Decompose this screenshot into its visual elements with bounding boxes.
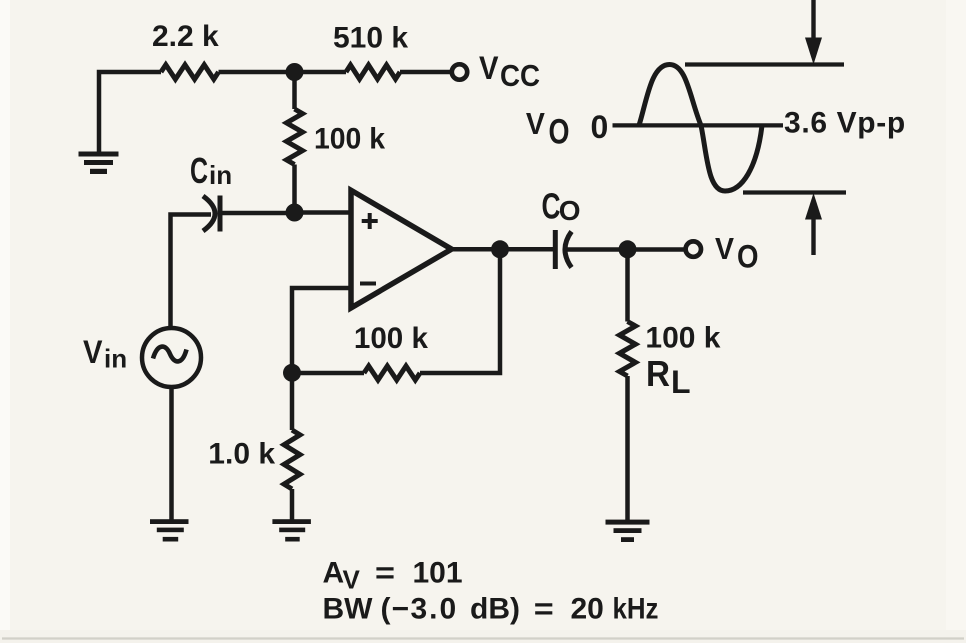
- svg-text:20: 20: [571, 593, 604, 626]
- svg-text:100 k: 100 k: [354, 322, 428, 355]
- svg-text:O: O: [737, 238, 759, 274]
- svg-text:510 k: 510 k: [333, 22, 408, 55]
- svg-text:C: C: [190, 150, 208, 191]
- svg-text:3.0: 3.0: [411, 593, 459, 626]
- svg-text:O: O: [549, 113, 570, 152]
- svg-text:V: V: [343, 565, 361, 595]
- svg-text:V: V: [715, 231, 734, 266]
- svg-text:BW: BW: [323, 593, 374, 626]
- svg-text:CC: CC: [500, 58, 540, 93]
- svg-text:V: V: [83, 334, 103, 370]
- svg-text:in: in: [209, 160, 232, 190]
- svg-text:(: (: [381, 593, 391, 626]
- svg-text:V: V: [479, 50, 499, 86]
- svg-text:3.6 Vp-p: 3.6 Vp-p: [784, 107, 906, 140]
- svg-text:−: −: [392, 593, 410, 626]
- svg-text:100 k: 100 k: [314, 123, 385, 156]
- svg-text:=: =: [534, 593, 554, 626]
- svg-text:V: V: [526, 106, 545, 141]
- svg-text:100 k: 100 k: [645, 321, 720, 354]
- svg-text:kHz: kHz: [613, 593, 659, 626]
- svg-text:R: R: [646, 353, 670, 394]
- svg-text:A: A: [323, 556, 345, 589]
- svg-text:C: C: [542, 186, 561, 227]
- svg-text:101: 101: [413, 556, 463, 589]
- svg-text:0: 0: [591, 109, 609, 145]
- svg-text:2.2 k: 2.2 k: [152, 20, 219, 53]
- svg-text:O: O: [559, 195, 581, 226]
- svg-text:=: =: [375, 556, 395, 589]
- svg-text:1.0 k: 1.0 k: [208, 437, 275, 470]
- svg-text:dB): dB): [470, 593, 520, 626]
- svg-text:L: L: [671, 364, 691, 400]
- svg-text:in: in: [104, 344, 127, 374]
